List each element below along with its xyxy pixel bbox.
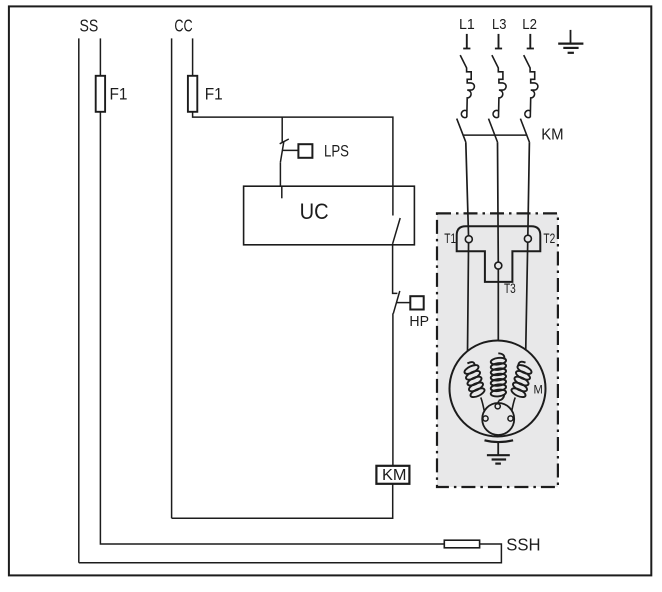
supply terminal L3 [495, 34, 502, 49]
terminal T2 [524, 235, 531, 242]
contact inside UC [393, 218, 401, 244]
wire L1 to T1 to winding [466, 142, 469, 363]
terminal block [457, 226, 541, 282]
star point terminal top [495, 404, 500, 409]
svg-text:L3: L3 [492, 16, 506, 33]
winding left [463, 362, 486, 399]
wire into UC right [392, 186, 394, 215]
circuit breaker pole L3 [492, 55, 506, 118]
svg-text:L1: L1 [459, 16, 475, 33]
wire KM coil return [172, 484, 393, 518]
motor ground [485, 440, 514, 463]
ground (supply earth) [558, 30, 583, 53]
supply terminal L1 [463, 34, 470, 49]
fuse F1 (CC branch) [188, 76, 197, 112]
wire SS fused conductor upper [99, 38, 101, 75]
wire HP to KM coil [392, 313, 394, 465]
resistor SSH [444, 540, 479, 548]
star point terminal right [508, 416, 513, 421]
wire CC fused conductor upper [192, 38, 194, 75]
wire SSH right loop [79, 544, 502, 563]
svg-text:T3: T3 [504, 281, 516, 296]
wire L2 to T2 to winding [526, 142, 530, 363]
winding right [510, 362, 533, 399]
wire control bus [193, 112, 393, 216]
winding to star-point links [481, 398, 516, 416]
circuit breaker pole L1 [460, 55, 474, 118]
coil KM box [376, 466, 409, 484]
contactor KM blade L2 [520, 119, 529, 143]
wire into UC left [281, 186, 283, 198]
svg-text:KM: KM [382, 467, 407, 484]
HP actuator box [410, 296, 423, 309]
star point connector [482, 403, 514, 435]
motor enclosure (dash-dot) [437, 213, 558, 487]
svg-text:SSH: SSH [506, 534, 540, 554]
wire L3 to T3 to winding [497, 142, 500, 354]
svg-text:SS: SS [80, 16, 99, 36]
svg-text:UC: UC [300, 199, 329, 224]
circuit breaker pole L2 [524, 55, 538, 118]
svg-text:M: M [534, 383, 543, 397]
svg-text:F1: F1 [110, 86, 128, 104]
switch HP (NC contact) [393, 291, 410, 314]
svg-text:T1: T1 [444, 231, 456, 246]
fuse F1 (SS branch) [96, 76, 105, 112]
svg-text:LPS: LPS [324, 142, 349, 161]
supply terminal L2 [527, 34, 534, 49]
wire CC left conductor [171, 38, 173, 518]
terminal T3 [495, 262, 502, 269]
switch LPS (NC contact) [280, 139, 299, 200]
terminal T1 [465, 236, 472, 243]
wire LPS branch stub [281, 117, 283, 142]
contactor KM blade L3 [489, 119, 498, 143]
star point terminal left [483, 416, 488, 421]
svg-text:HP: HP [409, 314, 429, 330]
wire SS fused conductor lower [100, 112, 444, 544]
motor M circle [450, 341, 546, 437]
wire SS left conductor [78, 38, 80, 562]
svg-text:L2: L2 [522, 16, 537, 33]
box UC [244, 186, 415, 245]
LPS actuator box [298, 144, 312, 158]
contactor KM blade L1 [457, 119, 466, 143]
svg-text:KM: KM [541, 127, 563, 144]
wire UC to HP [393, 244, 398, 294]
contactor KM linkage [463, 134, 527, 136]
winding middle [490, 353, 506, 400]
svg-text:T2: T2 [543, 231, 555, 246]
svg-text:F1: F1 [205, 86, 223, 104]
svg-text:CC: CC [174, 16, 192, 36]
